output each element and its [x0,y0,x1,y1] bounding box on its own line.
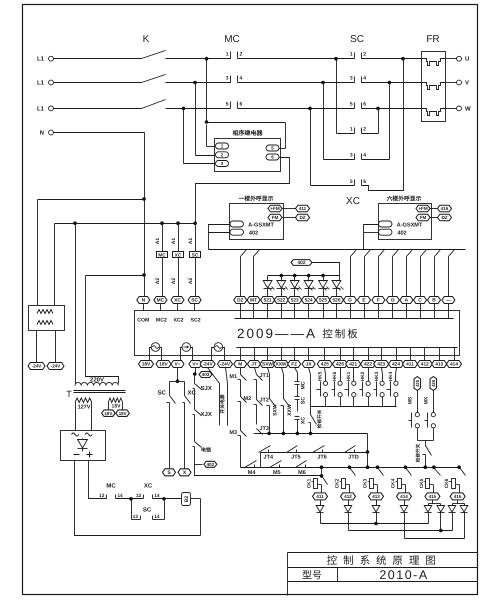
svg-text:412: 412 [344,494,352,499]
svg-text:V: V [465,80,469,87]
board bottom terminal 411 [403,348,418,368]
svg-text:2: 2 [363,52,366,58]
tag 18V right [116,410,130,417]
svg-text:SJX: SJX [201,385,212,392]
contactor coil MC [155,224,168,297]
svg-text:L1: L1 [37,105,45,112]
coil supply line [55,223,196,225]
svg-text:电锁: 电锁 [201,447,211,454]
wire SC to thermal relay FR (3 phases) [362,58,422,60]
relay pin 2 [216,152,229,158]
wire 24V secondary to -24V tags [36,331,38,363]
output terminal W [446,105,472,112]
wire relay pin2 feed [196,155,215,157]
svg-text:检修开关: 检修开关 [415,443,421,462]
wire junction node line1 to XC row1 [334,57,338,61]
wire L1-1 to switch K [54,58,142,60]
svg-text:M6: M6 [298,470,306,476]
svg-text:控制板: 控制板 [322,329,360,341]
svg-text:425: 425 [415,379,420,387]
wire XC row3 to line1 FR side [401,57,405,61]
svg-text:M4: M4 [248,470,257,476]
board bottom terminal XXW [274,348,289,368]
wire relay pin6 to coil supply line [196,158,290,224]
svg-text:18V: 18V [159,362,168,368]
board bottom terminal 422 [361,348,376,368]
wire N tap to 24V transformer [38,199,145,201]
floor-6 box output hexagon FM [416,214,430,221]
svg-text:13: 13 [136,493,142,499]
diode matrix row 3 [405,513,465,539]
svg-text:13: 13 [99,493,105,499]
svg-text:相序继电器: 相序继电器 [232,129,263,137]
switch 电锁 key lock [193,442,212,461]
contactor coil XC [171,224,184,297]
harness taps to board terminals [241,250,247,297]
wire junction node line2 to XC row2 [321,81,325,85]
board top terminal 523 [288,297,302,319]
svg-text:HK6: HK6 [332,371,338,381]
svg-text:MC: MC [106,483,116,490]
svg-text:414: 414 [400,494,408,499]
contactor SC main contacts (up direction) [350,34,366,109]
wire tap line2 down to phase-sequence relay pin2 [193,81,197,85]
board bottom terminal 414 [447,348,462,368]
door motor switch column M1 [229,368,246,397]
contactor XC main contacts (down direction, phase-swapped) [346,127,366,207]
tag 411 [296,205,310,212]
svg-text:XC: XC [346,196,360,207]
svg-text:DZ: DZ [299,215,305,220]
svg-text:MC: MC [301,381,307,389]
svg-text:5: 5 [226,101,229,107]
call button bus [311,406,397,408]
svg-text:2: 2 [240,52,243,58]
wire +FM to tag 416 [431,208,438,210]
svg-text:MC: MC [224,34,240,45]
svg-text:JT3: JT3 [260,426,269,432]
wire N branch to main transformer [86,275,145,277]
svg-text:MX: MX [424,396,430,404]
svg-text:403: 403 [202,372,210,377]
svg-text:检修开关: 检修开关 [316,409,322,428]
svg-text:XC2: XC2 [173,318,183,324]
svg-text:523: 523 [291,298,299,304]
board top terminal 526 [330,297,344,319]
svg-text:3: 3 [226,76,229,82]
svg-text:M: M [238,362,242,368]
wire XC row2 to line2 FR side [388,81,392,85]
board bottom terminal M [234,348,247,368]
svg-text:C: C [418,298,422,304]
terminal L1 phase 1 [37,56,53,63]
svg-text:521: 521 [264,298,272,304]
relay pin 1 [216,143,229,149]
svg-text:L1: L1 [37,80,45,87]
svg-text:A2: A2 [188,278,194,285]
svg-text:JT4: JT4 [264,455,274,461]
split diodes 416 [448,500,468,513]
svg-text:JT5: JT5 [291,455,300,461]
svg-text:411: 411 [299,206,307,211]
svg-text:4: 4 [240,76,243,82]
LED feed line [268,275,340,277]
tag -24V right [47,363,64,370]
svg-text:U: U [465,56,469,63]
svg-text:XC: XC [144,483,153,490]
wire V+ feed [195,368,197,375]
board bottom terminal -24V [218,361,233,368]
board top terminal F [372,297,385,319]
svg-text:A: A [405,298,409,304]
relay pin 3 [216,161,229,167]
contactor coil SC [188,224,201,297]
svg-text:416: 416 [454,494,462,499]
wire V- to S/X switch pair [177,368,179,382]
svg-text:JT2: JT2 [260,398,269,404]
svg-text:T: T [66,389,72,399]
wire tap line3 down to phase-sequence relay pin3 [182,107,186,111]
board bottom terminal JX [302,348,315,368]
svg-text:DZ: DZ [237,298,243,304]
svg-text:412: 412 [421,362,429,368]
svg-text:JX: JX [306,362,313,368]
svg-text:402: 402 [206,462,214,467]
board top terminal strip separator [235,318,454,320]
tag 402 on lock line [204,461,217,467]
svg-text:-24V: -24V [32,364,42,369]
switch JT2 [254,398,269,425]
switch XJX [193,410,212,442]
svg-text:HK3: HK3 [374,371,380,381]
board top terminal 524 [302,297,316,319]
tag 18V left [102,410,116,417]
svg-text:414: 414 [450,362,458,368]
wire rectifier plus to MC aux contact [89,461,107,499]
aux contact XC 13-14 [136,483,182,500]
board top terminal DZ [234,297,247,319]
wire phase branch to main transformer primary [73,221,77,225]
indicator tag 402 [291,260,312,266]
svg-text:A1: A1 [155,238,161,245]
board top terminal G [344,297,357,319]
svg-text:M3: M3 [229,430,237,436]
main relay bus with M4 M5 M6 [241,461,461,476]
main transformer T 220V [66,377,125,411]
svg-text:-24V: -24V [220,362,231,368]
wire relay pin5 feed [207,122,286,124]
floor-6 box output hexagon +FM [416,205,430,212]
svg-text:型号: 型号 [302,570,322,582]
wire +FM to tag 411 [283,208,296,210]
svg-text:HK1: HK1 [346,371,352,381]
svg-text:6: 6 [363,179,366,185]
svg-text:522: 522 [277,298,285,304]
switch SJX [193,375,212,410]
svg-text:421: 421 [349,362,357,368]
wire XC row1 to line3 FR side [376,107,380,111]
svg-text:XXW: XXW [276,362,287,368]
svg-text:K: K [143,34,150,45]
board bottom terminal JT [248,348,261,368]
floor-1 box pin 402 [230,229,244,235]
board bottom terminal 412 [417,348,432,368]
wire K to contactor MC (3 phases) [166,58,231,60]
svg-text:XC: XC [174,298,181,304]
svg-text:SC: SC [350,34,364,45]
svg-text:MS: MS [408,396,414,404]
svg-text:JTD: JTD [348,455,358,461]
svg-text:MC: MC [158,252,166,257]
board bottom terminal 18V [139,361,154,368]
svg-text:FM: FM [420,215,427,220]
svg-text:W: W [465,105,471,112]
tag 403 [199,372,212,378]
svg-text:SXW: SXW [262,362,273,368]
board bottom terminal V− [171,361,184,368]
svg-text:一楼外呼显示: 一楼外呼显示 [239,195,274,203]
board bottom terminal FZ [288,348,301,368]
board top terminal D [386,297,399,319]
aux contact SC 13-14 (parallel) [132,499,165,521]
svg-text:425: 425 [321,362,329,368]
phase sequence relay box 相序继电器 [215,129,281,172]
svg-text:6: 6 [240,101,243,107]
svg-text:6: 6 [363,101,366,107]
brake coil B2 [182,493,201,536]
board bottom terminal 18V [156,361,171,368]
inspection switch 2 检修开关 [415,441,432,468]
floor-1 call display box 一楼外呼显示 [230,195,284,240]
svg-text:N: N [40,130,44,137]
svg-text:402: 402 [249,231,258,237]
board bottom terminal strip separator [237,347,458,349]
svg-text:402: 402 [397,231,406,237]
svg-text:13: 13 [133,514,139,520]
board top terminal SC [188,297,201,311]
svg-text:5: 5 [350,101,353,107]
floor-1 box output hexagon FM [268,214,282,221]
board bottom terminal 423 [374,348,389,368]
switching power supply leads 开关电源 [208,368,228,426]
svg-text:JT6: JT6 [317,455,326,461]
floor-1 box pin A-GSXMT [230,221,244,227]
svg-text:426: 426 [431,379,436,387]
svg-text:A1: A1 [171,238,177,245]
floor-6 call display box 六楼外呼显示 [379,195,432,240]
svg-text:18V: 18V [119,411,127,416]
svg-text:-24V: -24V [203,362,214,368]
floor relays CK1-CK6 with tags and diodes [307,476,328,500]
tag DZ [296,214,310,221]
svg-text:控 制 系 统 原 理 图: 控 制 系 统 原 理 图 [327,555,438,567]
car command bus [257,433,368,435]
floor-1 box wiring bracket [209,225,231,250]
svg-text:CK3: CK3 [363,478,369,488]
svg-text:XC: XC [175,252,182,257]
board bottom terminal 413 [432,348,447,368]
control board 2009-A box [135,311,460,356]
svg-text:415: 415 [429,494,437,499]
svg-text:COM: COM [137,318,149,324]
svg-text:V+: V+ [192,362,198,368]
board bottom terminal -24V [200,361,215,368]
board bottom terminal V+ [189,361,202,368]
diode matrix row 1 [321,513,429,526]
output terminal U [446,56,470,63]
harness trunk line [209,249,466,251]
MS MX bracket [418,440,434,442]
svg-text:N: N [142,298,146,304]
tag S [163,469,176,476]
tag X [178,469,191,476]
board top terminal B [428,297,441,319]
svg-text:422: 422 [364,362,372,368]
svg-text:SC2: SC2 [191,318,201,324]
board top terminal COM- [442,297,455,319]
svg-text:2: 2 [363,127,366,133]
floor-1 box output hexagon +FM [268,205,282,212]
wire FM to tag DZ [283,217,296,219]
svg-text:CK5: CK5 [419,478,425,488]
wire 18V secondary to tags [108,403,110,411]
svg-text:5: 5 [350,179,353,185]
svg-text:411: 411 [316,494,324,499]
svg-text:JT: JT [251,362,257,368]
svg-text:MT: MT [250,298,257,304]
floor-6 box pin A-GSXMT [378,221,392,227]
svg-text:526: 526 [332,298,340,304]
svg-text:L1: L1 [37,56,45,63]
board bottom terminal 424 [389,348,404,368]
board top terminal N [137,297,150,311]
svg-text:A2: A2 [171,278,177,285]
svg-text:F: F [377,298,380,304]
selector diodes [316,500,324,513]
svg-text:B: B [432,298,436,304]
svg-text:六楼外呼显示: 六楼外呼显示 [387,195,422,203]
board bottom terminal 426 [333,348,348,368]
svg-text:SXW: SXW [273,404,279,416]
svg-text:18V: 18V [104,411,112,416]
wire tag 402 to LED row [313,263,340,276]
svg-text:1: 1 [350,52,353,58]
floor indicator LEDs 521-526 [263,276,274,297]
svg-text:SC: SC [143,507,152,514]
svg-text:XJX: XJX [201,411,212,418]
wire lock line to relay bus [195,461,322,476]
svg-text:XC: XC [301,417,307,424]
wire N line [54,132,145,134]
board bottom terminal 421 [346,348,361,368]
run switch column JT1 [254,368,269,400]
svg-text:18V: 18V [142,362,151,368]
title block [288,553,478,596]
svg-text:B2: B2 [184,496,190,503]
svg-text:402: 402 [297,260,305,266]
board top terminal E [358,297,371,319]
svg-text:FM: FM [272,215,279,220]
svg-text:2010-A: 2010-A [379,568,428,582]
terminal L1 phase 3 [37,105,53,112]
svg-text:3: 3 [350,76,353,82]
svg-text:D: D [391,298,395,304]
svg-text:18V: 18V [112,404,122,410]
svg-text:开关电源: 开关电源 [219,394,226,413]
svg-text:-24V: -24V [51,364,61,369]
svg-text:4: 4 [363,152,366,158]
svg-text:524: 524 [305,298,313,304]
svg-text:M5: M5 [273,470,281,476]
bridge rectifier [61,431,106,461]
inspection column JX with switch 检修开关 [309,368,322,434]
wire relay pin1 feed [206,125,208,147]
svg-text:127V: 127V [78,405,91,411]
up limit switch SXW [267,368,279,434]
wire coil-line tap to 24V transformer [54,224,56,306]
board top terminal 525 [316,297,330,319]
svg-text:XC: XC [188,390,197,397]
svg-text:A-GSXMT: A-GSXMT [248,222,274,228]
svg-text:+FM: +FM [418,206,427,211]
run relay row JT4 JT5 JT6 JTD [259,446,368,468]
board top terminal 522 [274,297,288,319]
svg-text:525: 525 [319,298,327,304]
relay pin 6 [266,154,279,160]
split diodes 415 [424,500,444,513]
svg-text:A-GSXMT: A-GSXMT [397,222,423,228]
svg-text:SC: SC [158,390,167,397]
wire 127V secondary to rectifier [75,403,77,431]
AC source symbol 18V [150,343,162,361]
svg-text:423: 423 [377,362,385,368]
bus corner to JT row [367,434,369,468]
svg-text:413: 413 [372,494,380,499]
board top terminal MC [154,297,167,311]
svg-text:—: — [446,299,451,304]
svg-text:SC: SC [191,298,198,304]
svg-text:CK1: CK1 [307,478,313,488]
svg-text:1: 1 [226,52,229,58]
tag 416 [438,205,452,212]
24V control transformer [29,306,65,331]
interlock contact chain MC SC XC [295,368,307,434]
floor-6 box pin 402 [378,229,392,235]
svg-text:SC: SC [301,397,307,404]
switch SC to tag S [158,382,176,469]
svg-text:411: 411 [406,362,414,368]
svg-text:2009——A: 2009——A [237,326,317,341]
svg-text:416: 416 [441,206,449,211]
svg-text:3: 3 [350,152,353,158]
car door station MS MX [408,377,421,441]
switch JT3 [254,426,269,435]
svg-text:XXW: XXW [287,404,293,416]
tag -24V left [28,363,45,370]
board bottom terminal SXW [260,348,275,368]
svg-text:1: 1 [350,127,353,133]
svg-text:V−: V− [174,362,180,368]
landing call buttons HK5 HK6 HK1 HK2 HK3 HK4 [317,368,328,407]
main switch K [142,34,166,109]
board top terminal A [400,297,413,319]
wire L1-3 to switch K [54,108,142,110]
floor-6 box wiring bracket [364,225,379,250]
wire FM to tag DZ (floor-6) [431,217,438,219]
svg-text:CK2: CK2 [335,478,341,488]
tag DZ floor-6 [438,214,452,221]
relay pin 5 [266,145,279,151]
